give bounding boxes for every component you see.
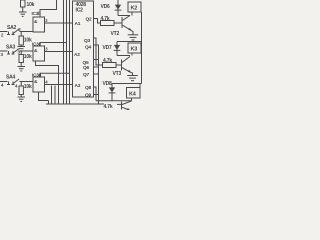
relay K2 box [128, 2, 141, 12]
ground (VT3 emitter) [127, 76, 138, 81]
svg-text:10k: 10k [27, 2, 35, 8]
switch SA2 [0, 29, 19, 35]
svg-text:10k: 10k [24, 84, 32, 90]
ground (SA4 resistor) [18, 97, 26, 101]
relay K3 box [128, 43, 141, 53]
wire ladder bottom bus [46, 103, 104, 105]
svg-text:K2: K2 [131, 6, 138, 12]
resistor 10k SA3 pull-down [19, 51, 23, 67]
switch SA3 [0, 49, 19, 55]
wire R to VT3 base [116, 64, 122, 66]
svg-text:A1: A1 [75, 21, 81, 27]
svg-text:Q6: Q6 [83, 65, 90, 71]
diode VD7 [114, 42, 121, 56]
svg-text:10k: 10k [24, 54, 32, 60]
svg-text:Q3: Q3 [84, 38, 91, 44]
svg-text:VT3: VT3 [113, 71, 122, 77]
wire ladder vertical 3 [54, 86, 56, 105]
gate IC3d box [33, 77, 45, 92]
svg-text:IC3b: IC3b [32, 11, 42, 16]
wire IC3d second input to bus [40, 73, 70, 77]
wire Q2 to R (4.7k) [94, 19, 101, 24]
wire +V rail right [141, 12, 143, 84]
svg-text:VT2: VT2 [111, 31, 120, 37]
svg-text:Q2: Q2 [86, 17, 93, 23]
wire IC3c second input to bus [40, 43, 67, 47]
resistor 10k SA2 pull-down [19, 32, 23, 47]
diode VD6 [115, 0, 122, 16]
wire Q8 down to bottom bus [94, 87, 97, 101]
svg-text:K3: K3 [131, 47, 138, 53]
wire Q9 stub [94, 94, 99, 96]
node collector K3 [117, 55, 130, 57]
gate IC3b box [33, 17, 45, 32]
wire VT3 emitter to ground [131, 73, 133, 76]
wire Q5 stub [94, 59, 99, 61]
wire bus B vertical [66, 0, 68, 104]
svg-text:4.7k: 4.7k [101, 16, 110, 22]
wire bus A vertical [63, 0, 65, 104]
wire K2 coil bottom [131, 12, 133, 16]
resistor 10k top-left pull-down [21, 0, 26, 12]
transistor VT3 [122, 57, 132, 73]
wire IC3d output to IC2 pin A3 [45, 84, 73, 86]
ground (SA2 resistor) [18, 47, 26, 51]
svg-text:4.7k: 4.7k [104, 104, 113, 110]
node collector K2 [118, 15, 130, 17]
wire IC3c bottom pin down to bottom bus [36, 61, 59, 104]
wire R to VT4 base [117, 103, 122, 105]
svg-text:IC3c: IC3c [32, 42, 42, 47]
wire ladder vertical 1 [48, 101, 50, 105]
wire IC3b output to IC2 pin A1 [45, 22, 73, 24]
switch SA4 [0, 79, 19, 85]
svg-text:SA2: SA2 [7, 25, 17, 31]
svg-text:SA3: SA3 [6, 45, 16, 51]
gate IC3c box [33, 46, 45, 61]
wire K4 coil top to rail [139, 84, 141, 88]
ground (VT2 emitter) [128, 35, 139, 40]
wire rail to VD8 cathode [112, 83, 142, 85]
wire bus C vertical [69, 0, 71, 104]
wire SA4 to IC3d input [20, 81, 34, 83]
resistor 4.7k channel 2 [103, 63, 117, 68]
wire Q4 down the bus [94, 45, 99, 104]
wire K4 coil bottom [131, 98, 133, 101]
wire VD7 cathode to rail [117, 41, 142, 43]
resistor 10k SA4 pull-down [19, 82, 23, 98]
wire IC3b second input to top edge [40, 0, 57, 17]
wire R to VT2 base [114, 22, 122, 24]
svg-text:4.7k: 4.7k [103, 58, 112, 64]
svg-text:VD6: VD6 [101, 4, 111, 10]
resistor 4.7k channel 1 [101, 21, 115, 26]
svg-text:Q8: Q8 [85, 85, 92, 91]
svg-text:VD8: VD8 [103, 81, 113, 87]
wire VT2 emitter to ground [132, 31, 134, 35]
ground (SA3 resistor) [18, 67, 26, 71]
transistor VT4 [122, 101, 132, 111]
svg-text:VD7: VD7 [103, 45, 113, 51]
svg-text:Q7: Q7 [83, 72, 90, 78]
svg-text:K4: K4 [129, 92, 137, 98]
ground (top-left resistor) [19, 12, 27, 16]
diode VD8 [109, 84, 116, 101]
wire K3 coil bottom [131, 53, 133, 56]
wire ladder vertical 2 [51, 86, 53, 105]
svg-text:IC2: IC2 [76, 8, 84, 14]
wire Q3 down to channel2 [94, 38, 103, 65]
wire Q8 node to K4 collector [96, 100, 132, 102]
svg-text:A3: A3 [75, 83, 81, 89]
wire Q6 stub [94, 66, 99, 68]
svg-text:SA4: SA4 [6, 75, 16, 81]
svg-text:Q4: Q4 [85, 45, 92, 51]
svg-text:A2: A2 [74, 52, 80, 58]
wire SA2 to IC3b input [20, 31, 34, 33]
svg-text:Q9: Q9 [85, 93, 92, 99]
wire IC3c output to IC2 pin A2 [45, 51, 73, 53]
svg-text:10k: 10k [24, 38, 32, 44]
transistor VT2 [122, 16, 132, 31]
wire Q7 stub [94, 73, 99, 75]
wire IC3d bottom to ladder [39, 92, 49, 101]
wire SA3 to IC3c input [20, 50, 34, 52]
relay K4 box [127, 88, 141, 99]
IC U2 4028 box [73, 1, 94, 97]
svg-text:IC3d: IC3d [32, 73, 42, 78]
